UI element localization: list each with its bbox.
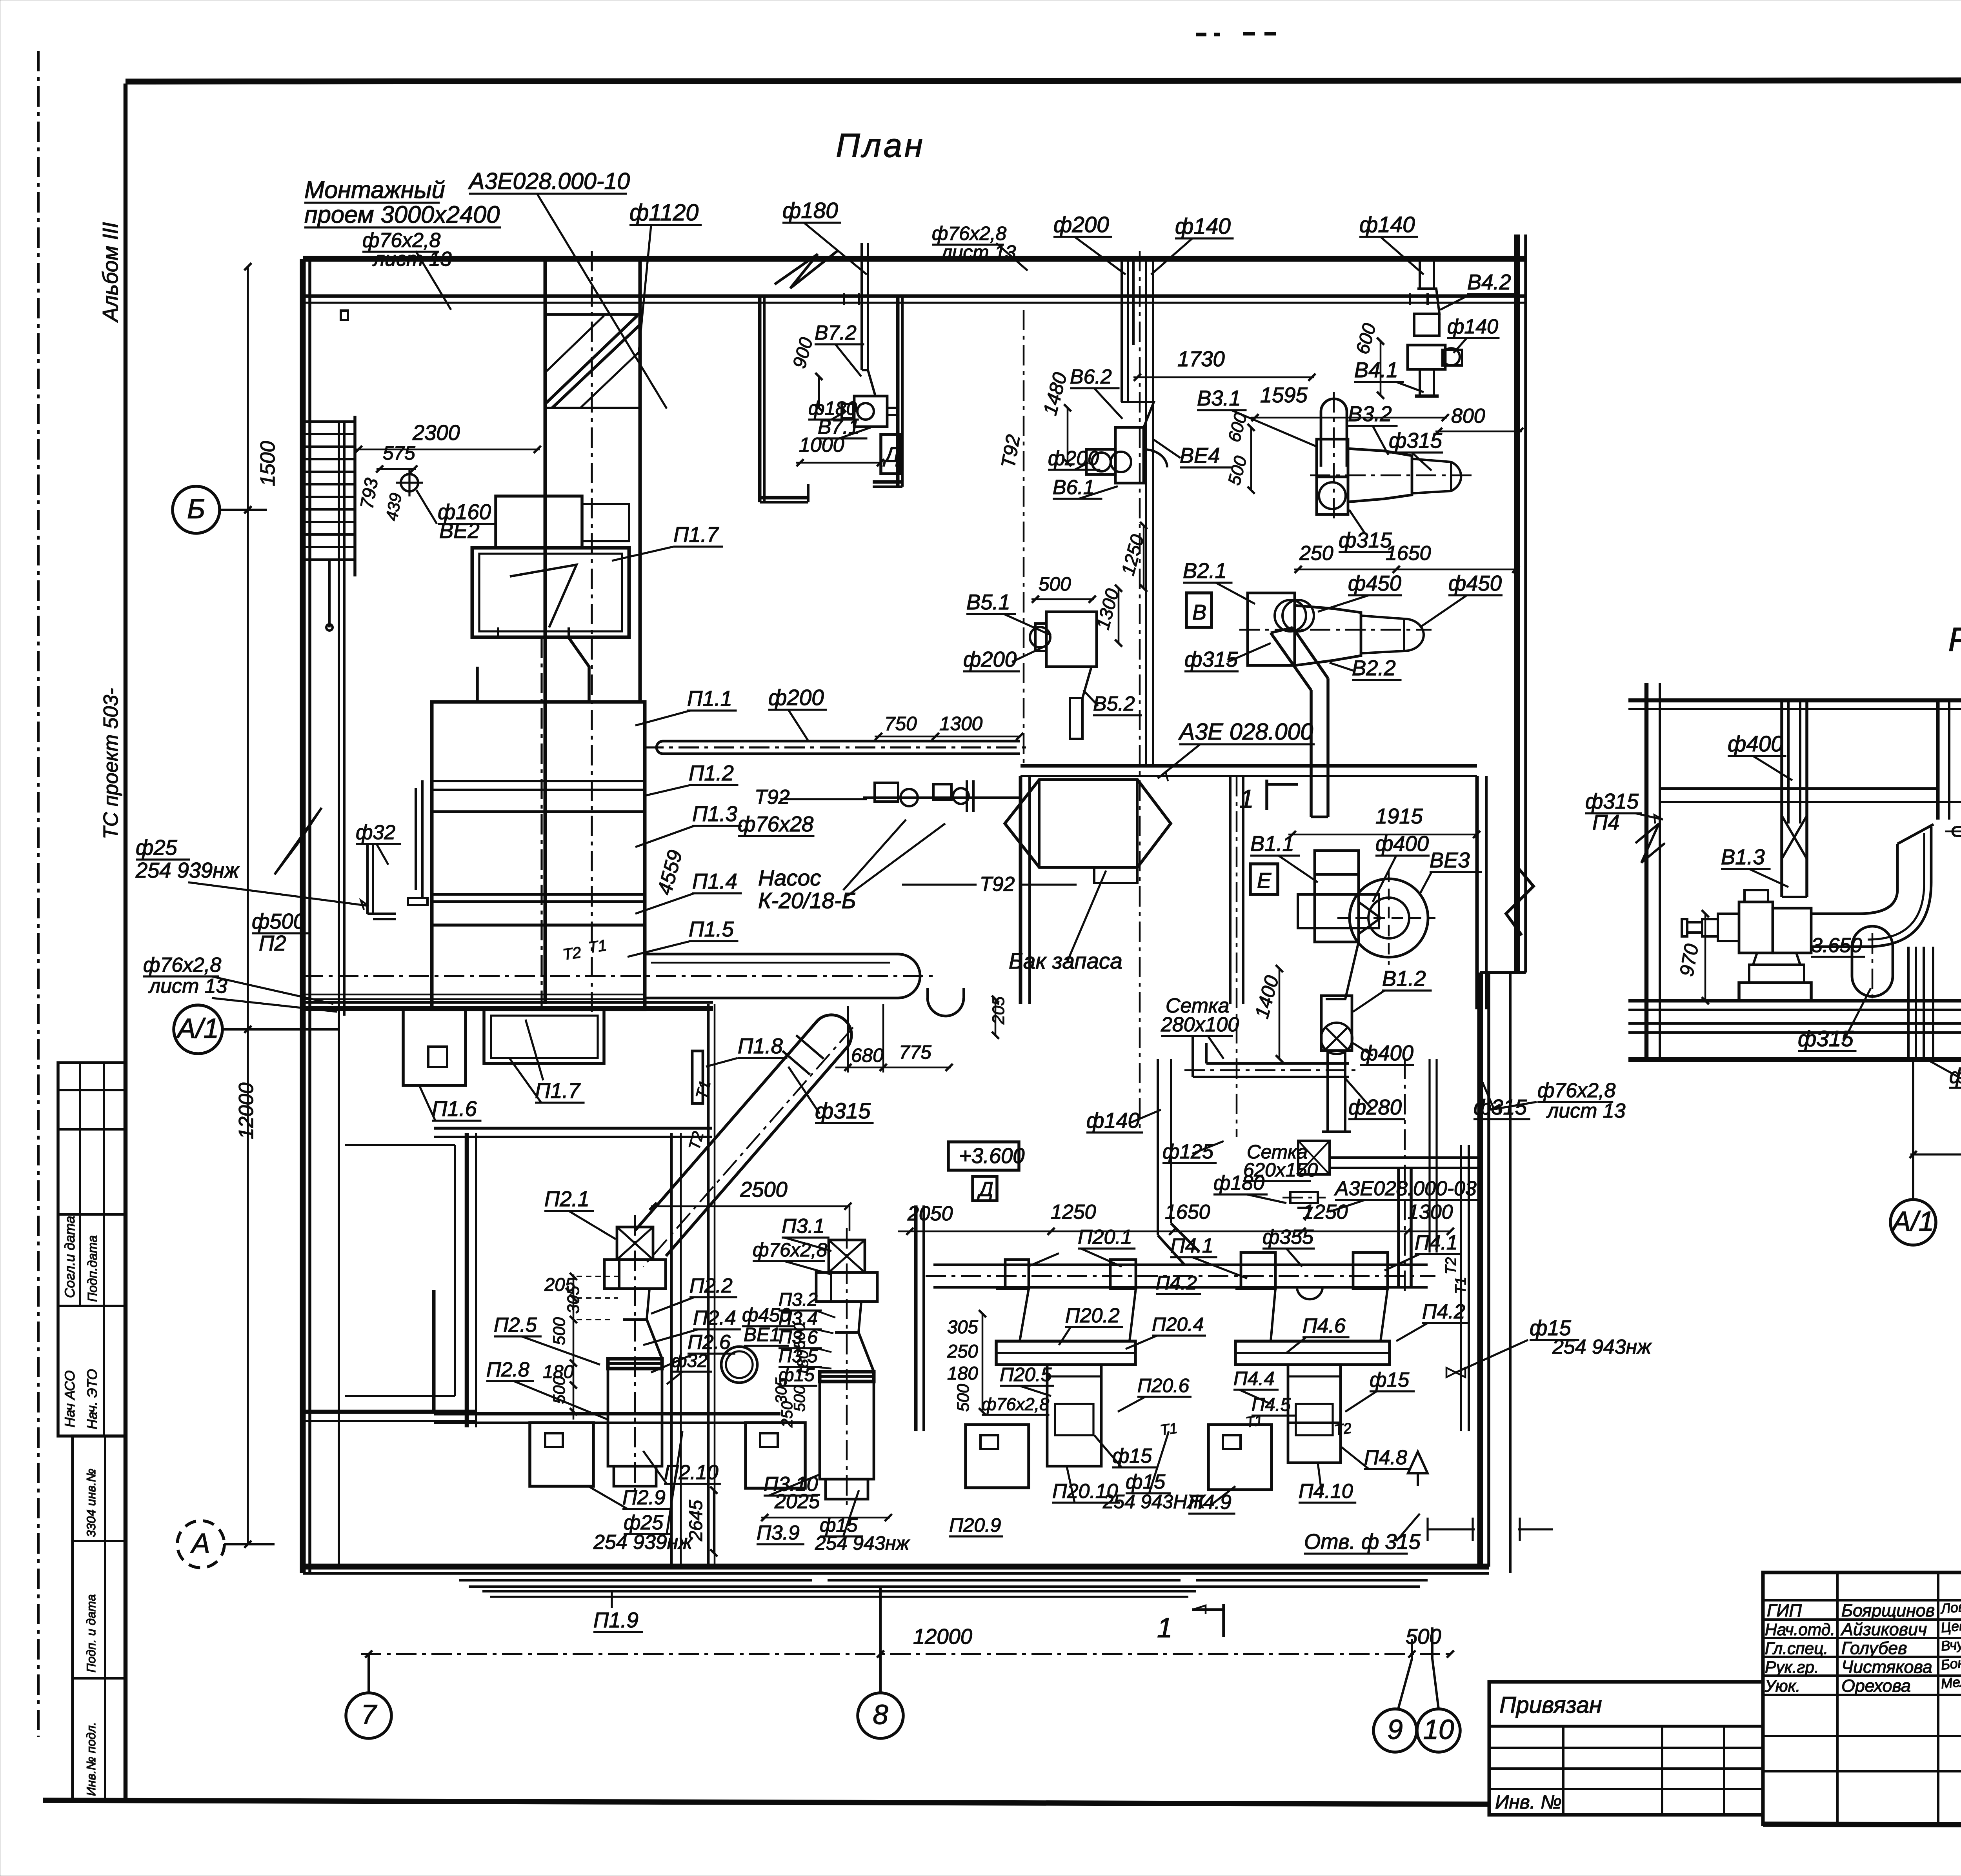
svg-text:П4.1: П4.1 bbox=[1415, 1231, 1458, 1254]
frame top border bbox=[126, 80, 1961, 82]
section title bbox=[1948, 621, 1961, 658]
svg-text:750: 750 bbox=[884, 713, 917, 734]
fan BE3 bbox=[1337, 871, 1435, 965]
pipe f32 riser bbox=[367, 844, 396, 919]
room E right wall bbox=[1477, 776, 1486, 1009]
svg-text:П2.2: П2.2 bbox=[689, 1274, 733, 1297]
svg-text:12000: 12000 bbox=[913, 1625, 972, 1649]
margin rotated text TS project bbox=[100, 688, 122, 839]
label f76x2.8 list13 mid bbox=[932, 222, 1028, 271]
svg-text:ф200: ф200 bbox=[768, 685, 824, 710]
svg-text:Нач. ЭТО: Нач. ЭТО bbox=[84, 1369, 100, 1429]
svg-text:К-20/18-Б: К-20/18-Б bbox=[758, 889, 856, 913]
corridor wall bbox=[303, 1002, 713, 1009]
axis A line bbox=[224, 1543, 275, 1545]
dim 800 bbox=[1435, 405, 1523, 435]
label P20.9 bbox=[949, 1514, 1003, 1536]
margin rotated text Album III bbox=[98, 222, 122, 323]
label P1.6 bbox=[420, 1086, 482, 1121]
svg-text:А/1: А/1 bbox=[176, 1013, 219, 1044]
dim 500 B5 bbox=[1031, 573, 1096, 603]
wall room horiz bbox=[434, 1290, 780, 1423]
label f500 P2 bbox=[252, 909, 311, 955]
svg-text:Т2: Т2 bbox=[562, 943, 582, 963]
label P2.5 bbox=[494, 1314, 600, 1365]
stamp rotated low 3 bbox=[84, 1722, 98, 1796]
section lower slab bbox=[1628, 1023, 1961, 1033]
label P20.4 bbox=[1126, 1313, 1206, 1349]
label B5.2 bbox=[1083, 690, 1142, 715]
risers T1 T2 right bbox=[1443, 1145, 1469, 1431]
svg-text:ф200: ф200 bbox=[1048, 447, 1099, 470]
dim 1300 rot bbox=[1092, 585, 1123, 647]
tank bak zapasa bbox=[1005, 780, 1171, 883]
svg-text:Боярщинов: Боярщинов bbox=[1841, 1600, 1935, 1620]
unit B7 bbox=[842, 370, 899, 427]
label f200 pump bbox=[768, 685, 827, 740]
label P3.9 bbox=[757, 1522, 804, 1544]
duct above B1.3 detail bbox=[1782, 896, 1807, 898]
axis circle A left bbox=[177, 1521, 224, 1568]
svg-text:ф400: ф400 bbox=[1375, 832, 1429, 856]
label P4.9 bbox=[1188, 1486, 1235, 1514]
plan top wall inner bbox=[303, 296, 1526, 303]
svg-text:7: 7 bbox=[361, 1700, 377, 1731]
svg-text:В3.2: В3.2 bbox=[1348, 402, 1392, 426]
svg-text:лист 13: лист 13 bbox=[1546, 1100, 1626, 1122]
svg-text:Подп.дата: Подп.дата bbox=[85, 1235, 100, 1302]
label A3E028.000 bbox=[1158, 719, 1315, 781]
svg-text:П1.1: П1.1 bbox=[687, 687, 732, 711]
label f32 bbox=[356, 821, 401, 865]
svg-text:439: 439 bbox=[383, 492, 406, 522]
svg-text:254 943нж: 254 943нж bbox=[815, 1532, 910, 1554]
svg-text:Боно: Боно bbox=[1940, 1654, 1961, 1673]
svg-text:9: 9 bbox=[1387, 1714, 1403, 1745]
sig row 1 bbox=[1767, 1596, 1961, 1620]
triangle mark bbox=[1408, 1452, 1428, 1486]
label f25 254939 low bbox=[593, 1431, 693, 1554]
svg-text:ф315: ф315 bbox=[1389, 429, 1443, 453]
label D box upper bbox=[881, 434, 900, 474]
corridor axis T1 bbox=[303, 975, 937, 977]
label E box bbox=[1250, 864, 1278, 894]
svg-text:П2.9: П2.9 bbox=[622, 1486, 666, 1509]
stamp rotated low 2 bbox=[84, 1594, 98, 1672]
signature table outline bbox=[1763, 1572, 1961, 1824]
sig row 4 bbox=[1765, 1654, 1961, 1677]
label B5.1 bbox=[966, 590, 1051, 635]
label P1.8 bbox=[706, 1034, 788, 1067]
svg-text:ф315: ф315 bbox=[1339, 528, 1392, 552]
label f140 top bbox=[1151, 214, 1234, 274]
dim 4559 rotated bbox=[653, 848, 687, 898]
label f32 P2 bbox=[667, 1351, 712, 1384]
svg-text:Б: Б bbox=[187, 494, 205, 525]
label P4.8 bbox=[1341, 1446, 1411, 1469]
labels T1 T2 bottom bbox=[685, 1078, 1353, 1438]
label f400 B1.2 bbox=[1353, 1041, 1414, 1065]
svg-text:В6.2: В6.2 bbox=[1070, 365, 1112, 388]
page left dash-dot margin line bbox=[37, 51, 40, 1737]
svg-text:В7.2: В7.2 bbox=[815, 322, 857, 344]
svg-text:1595: 1595 bbox=[1260, 383, 1308, 407]
svg-text:1915: 1915 bbox=[1375, 804, 1423, 828]
dims bottom row bbox=[898, 1201, 1454, 1235]
label f140 low bbox=[1086, 1109, 1161, 1133]
room D right C-wall bbox=[873, 296, 902, 487]
svg-text:Т1: Т1 bbox=[1452, 1277, 1469, 1294]
sig row 2 bbox=[1765, 1616, 1961, 1639]
unit B6 body bbox=[1086, 427, 1167, 483]
svg-text:8: 8 bbox=[873, 1700, 888, 1731]
dim 205 bbox=[544, 1273, 618, 1420]
label BE4 bbox=[1153, 439, 1232, 467]
small funnel f180 bbox=[1282, 1192, 1326, 1220]
thin duct f125 bbox=[1945, 827, 1961, 836]
svg-text:ф180: ф180 bbox=[1213, 1172, 1264, 1194]
label P20.5 bbox=[1000, 1363, 1054, 1396]
wall vertical mid2 bbox=[708, 1004, 715, 1567]
dim 1000 B7 bbox=[796, 434, 884, 466]
svg-text:575: 575 bbox=[383, 442, 415, 464]
stamp rotated low 1 bbox=[84, 1469, 98, 1537]
plan left wall bbox=[303, 259, 310, 1573]
pipes through floor bbox=[1908, 947, 1933, 1060]
unit P1 stack centerline bbox=[540, 638, 542, 1007]
svg-text:П2.10: П2.10 bbox=[664, 1461, 719, 1484]
label +3.600 box bbox=[948, 1142, 1025, 1170]
svg-text:П1.6: П1.6 bbox=[432, 1097, 477, 1121]
svg-text:ВЕ1: ВЕ1 bbox=[744, 1323, 780, 1345]
svg-text:Уюк.: Уюк. bbox=[1765, 1677, 1800, 1696]
svg-text:П4.6: П4.6 bbox=[1302, 1314, 1346, 1337]
svg-text:1650: 1650 bbox=[1165, 1201, 1210, 1223]
dim small right b bbox=[1518, 1518, 1553, 1541]
plan top wall outer bbox=[303, 256, 1526, 262]
label P1.2 bbox=[643, 761, 739, 796]
svg-text:205: 205 bbox=[990, 996, 1008, 1025]
label f25 254939 bbox=[135, 836, 369, 910]
stamp column lower box bbox=[73, 1436, 126, 1800]
svg-text:ф450: ф450 bbox=[1448, 571, 1502, 595]
dim 500 600 rot bbox=[1224, 411, 1255, 494]
dim line bottom bbox=[361, 1651, 1454, 1658]
label P1.7 upper bbox=[612, 523, 723, 561]
duct f280 bottom bbox=[1184, 1035, 1357, 1077]
dim 2645 rot bbox=[686, 1487, 717, 1556]
label f200 top bbox=[1053, 213, 1126, 274]
svg-text:П2.5: П2.5 bbox=[494, 1314, 537, 1336]
label f15 P4 bbox=[1345, 1369, 1415, 1412]
unit P4 body bbox=[1288, 1365, 1341, 1463]
duct B3 capsule bbox=[1321, 392, 1347, 522]
label B6.2 bbox=[1070, 365, 1122, 419]
svg-text:ф280: ф280 bbox=[1348, 1095, 1402, 1119]
svg-text:2050: 2050 bbox=[907, 1202, 953, 1225]
label T92 upper bbox=[755, 786, 867, 809]
svg-text:Т92: Т92 bbox=[980, 873, 1015, 896]
dim 1480 rot bbox=[1039, 370, 1071, 466]
svg-text:254 939нж: 254 939нж bbox=[135, 858, 240, 882]
label montazhny proem bbox=[304, 176, 501, 228]
label D box lower bbox=[973, 1176, 997, 1201]
stamp rotated sig 1 bbox=[62, 1216, 78, 1298]
wall between P3 P20 bbox=[916, 1205, 924, 1431]
duct to right wall bbox=[1330, 1158, 1479, 1168]
svg-text:ф1120: ф1120 bbox=[629, 200, 699, 225]
label A3E028.000-10 bbox=[468, 168, 667, 409]
svg-text:ф315: ф315 bbox=[1585, 789, 1639, 813]
plan title bbox=[836, 127, 925, 164]
label P2.4 bbox=[643, 1307, 741, 1345]
svg-text:ф400: ф400 bbox=[1728, 732, 1783, 756]
svg-text:Инв. №: Инв. № bbox=[1495, 1791, 1562, 1813]
pump symbols bbox=[863, 780, 1020, 812]
svg-text:ф76х2,8: ф76х2,8 bbox=[143, 954, 221, 976]
label f355 bbox=[1262, 1226, 1315, 1267]
fan B1.3 motor bbox=[1739, 890, 1811, 953]
label P4.1 b bbox=[1384, 1231, 1462, 1271]
label f180 top left bbox=[775, 198, 867, 288]
section ceiling bbox=[1628, 700, 1961, 709]
pipes T1 T2 corridor bbox=[303, 994, 643, 999]
unit P1 big box bbox=[472, 548, 629, 637]
section mid wall bbox=[1938, 700, 1949, 820]
label f1120 bbox=[629, 200, 702, 355]
signature table rows bbox=[1763, 1600, 1961, 1771]
label B4.1 bbox=[1354, 358, 1424, 392]
svg-text:ф76х2,8: ф76х2,8 bbox=[1537, 1079, 1615, 1102]
stamp rotated sig 2 bbox=[85, 1235, 100, 1302]
duct to B4 bbox=[1420, 259, 1434, 289]
label T92 lower bbox=[902, 873, 1077, 896]
dim 1915 bbox=[1288, 804, 1480, 838]
svg-text:Насос: Насос bbox=[758, 866, 821, 891]
label f400 sec bbox=[1728, 732, 1792, 780]
label f315 P4 left bbox=[1585, 789, 1663, 834]
svg-text:500: 500 bbox=[791, 1323, 808, 1349]
svg-text:лист 13: лист 13 bbox=[940, 241, 1016, 263]
label f315 diag bbox=[788, 1067, 874, 1123]
shaft hatch band bbox=[545, 314, 640, 408]
label P3.10 bbox=[764, 1473, 820, 1496]
svg-text:В5.2: В5.2 bbox=[1093, 693, 1135, 715]
svg-text:П4.8: П4.8 bbox=[1364, 1446, 1407, 1469]
svg-text:В4.1: В4.1 bbox=[1354, 358, 1398, 382]
plan top wall opening ticks bbox=[844, 293, 1428, 305]
svg-text:Мелютн: Мелютн bbox=[1940, 1670, 1961, 1692]
dim small right a bbox=[1428, 1518, 1475, 1541]
unit P2 funnel assembly bbox=[604, 1215, 666, 1498]
section floor bbox=[1628, 1001, 1961, 1010]
label P4.2 a bbox=[1156, 1272, 1201, 1294]
svg-text:250: 250 bbox=[947, 1341, 978, 1362]
svg-text:600: 600 bbox=[1352, 321, 1380, 356]
label BE3 bbox=[1420, 848, 1482, 894]
label f15 low bbox=[1094, 1435, 1157, 1467]
svg-text:ф140: ф140 bbox=[1175, 214, 1231, 239]
svg-text:П3.1: П3.1 bbox=[782, 1215, 825, 1238]
unit B6 funnel bbox=[1115, 402, 1154, 483]
pipes f200 f140 cluster bbox=[1122, 251, 1153, 1133]
stamp rotated sig 4 bbox=[84, 1369, 100, 1429]
unit P1 left attach bbox=[408, 780, 427, 905]
svg-text:В1.1: В1.1 bbox=[1250, 832, 1294, 856]
svg-text:305: 305 bbox=[772, 1377, 790, 1404]
svg-text:Т1: Т1 bbox=[1244, 1412, 1264, 1431]
frame top small dashes bbox=[1196, 34, 1279, 35]
label B1.2 bbox=[1353, 967, 1432, 1012]
unit P1.7 lower bbox=[484, 1009, 604, 1063]
svg-text:ф200: ф200 bbox=[963, 647, 1017, 671]
dim 205 rot bbox=[990, 996, 1008, 1039]
duct P1.5 outlet bbox=[643, 954, 920, 998]
svg-text:600: 600 bbox=[1224, 411, 1251, 444]
section beam left bbox=[1660, 789, 1938, 802]
left vertical dim line bbox=[244, 263, 251, 1548]
svg-text:В: В bbox=[1192, 600, 1206, 624]
room E left wall bbox=[1021, 776, 1030, 1004]
svg-text:ТС проект 503-: ТС проект 503- bbox=[100, 688, 122, 839]
unit B1.2 bbox=[1321, 996, 1352, 1132]
label f140 top right bbox=[1359, 213, 1424, 274]
label B1.1 bbox=[1250, 832, 1318, 882]
label B2.1 bbox=[1183, 559, 1255, 604]
svg-text:793: 793 bbox=[357, 476, 382, 511]
elbow duct f400 bbox=[1811, 824, 1934, 947]
svg-text:180: 180 bbox=[794, 1350, 811, 1376]
label f200 B6 bbox=[1048, 447, 1100, 470]
pedestal P4a bbox=[1208, 1425, 1272, 1490]
label P2.6 bbox=[651, 1331, 735, 1372]
label B6.1 bbox=[1053, 476, 1118, 499]
dims left col P20 bbox=[947, 1310, 986, 1415]
axis circle B bbox=[173, 486, 220, 533]
svg-text:ф140: ф140 bbox=[1086, 1109, 1140, 1133]
label B box bbox=[1186, 593, 1212, 627]
svg-text:1400: 1400 bbox=[1251, 973, 1283, 1020]
frame bottom border right bbox=[1763, 1824, 1961, 1826]
dim 680 775 bbox=[835, 1004, 953, 1073]
svg-text:П1.7: П1.7 bbox=[673, 523, 719, 547]
svg-text:970: 970 bbox=[1675, 942, 1703, 978]
wall vertical mid bbox=[671, 1133, 681, 1567]
label P20.1 bbox=[1028, 1226, 1135, 1267]
svg-text:лист 13: лист 13 bbox=[372, 248, 452, 271]
label 3.650 bbox=[1811, 934, 1865, 957]
plan right wall upper bbox=[1517, 234, 1526, 973]
wall left room right bbox=[467, 1133, 476, 1427]
svg-text:П4.1: П4.1 bbox=[1170, 1234, 1213, 1257]
unit B1 funnel bbox=[1315, 942, 1359, 999]
svg-text:280х100: 280х100 bbox=[1161, 1013, 1239, 1036]
svg-text:Инв.№ подл.: Инв.№ подл. bbox=[84, 1722, 98, 1796]
dim 1595 bbox=[1251, 383, 1449, 421]
section column left pair bbox=[1782, 700, 1807, 823]
svg-text:254 943нж: 254 943нж bbox=[1552, 1336, 1652, 1358]
label f180 B7 bbox=[808, 397, 859, 420]
svg-text:П3.9: П3.9 bbox=[757, 1522, 800, 1544]
dim 6000 line bbox=[1910, 1151, 1961, 1158]
svg-text:2300: 2300 bbox=[412, 421, 460, 445]
label f315 right low bbox=[1473, 1082, 1530, 1119]
svg-text:П4.2: П4.2 bbox=[1422, 1300, 1465, 1323]
svg-text:В5.1: В5.1 bbox=[966, 590, 1010, 614]
svg-text:180: 180 bbox=[947, 1363, 978, 1384]
label f76x28 bbox=[738, 812, 815, 836]
svg-text:500: 500 bbox=[954, 1384, 973, 1412]
svg-text:ф180: ф180 bbox=[782, 198, 838, 223]
label bak zapasa bbox=[1009, 871, 1122, 974]
label P20.6 bbox=[1118, 1374, 1192, 1412]
svg-text:Т92: Т92 bbox=[997, 433, 1024, 470]
axis leader A1 sec bbox=[1912, 1060, 1914, 1200]
dim 250 1650 bbox=[1294, 542, 1519, 573]
unit P1.8 bbox=[692, 1051, 703, 1103]
svg-text:П1.4: П1.4 bbox=[692, 869, 737, 893]
privyazan text bbox=[1499, 1692, 1602, 1718]
svg-text:ф140: ф140 bbox=[1447, 315, 1498, 338]
svg-text:254 939нж: 254 939нж bbox=[593, 1531, 693, 1554]
svg-text:Т92: Т92 bbox=[755, 786, 790, 809]
svg-text:2645: 2645 bbox=[686, 1500, 706, 1542]
section break left wall bbox=[1635, 823, 1665, 863]
label P1.9 bbox=[593, 1591, 643, 1632]
fan B1.3 inlet bbox=[1682, 914, 1739, 941]
room D left C-wall bbox=[760, 296, 808, 502]
plan top wall notch bbox=[341, 311, 348, 320]
duct to B7 bbox=[862, 243, 868, 370]
svg-text:А3Е028.000-10: А3Е028.000-10 bbox=[468, 168, 630, 194]
svg-text:П1.3: П1.3 bbox=[692, 802, 737, 826]
svg-text:Монтажный: Монтажный bbox=[304, 176, 445, 204]
axis A1 line bbox=[222, 1028, 338, 1031]
svg-text:ф32: ф32 bbox=[671, 1351, 708, 1371]
dim 575 bbox=[376, 442, 417, 473]
dim 439 rot bbox=[383, 492, 406, 522]
svg-text:500: 500 bbox=[791, 1385, 808, 1412]
svg-text:Вчу: Вчу bbox=[1940, 1636, 1961, 1654]
label T92 rot bbox=[997, 310, 1024, 765]
label P1.5 bbox=[628, 917, 739, 957]
svg-text:500: 500 bbox=[1224, 454, 1251, 487]
svg-text:1: 1 bbox=[1239, 785, 1254, 814]
unit P20 plate bbox=[996, 1341, 1135, 1365]
unit P1 stack bbox=[432, 702, 645, 1009]
svg-text:ф76х2,8: ф76х2,8 bbox=[753, 1239, 828, 1261]
unit P20 body bbox=[1047, 1365, 1101, 1466]
plan bottom wall bbox=[303, 1567, 1489, 1573]
svg-text:ф355: ф355 bbox=[1262, 1226, 1313, 1249]
svg-text:П20.2: П20.2 bbox=[1065, 1304, 1120, 1327]
svg-text:Т2: Т2 bbox=[1333, 1420, 1352, 1438]
svg-text:П1.8: П1.8 bbox=[738, 1034, 783, 1058]
svg-text:2500: 2500 bbox=[740, 1178, 788, 1202]
svg-text:Т2: Т2 bbox=[1443, 1257, 1459, 1274]
label setka 280x100 bbox=[1161, 994, 1239, 1059]
dim 1250 rot bbox=[1117, 522, 1148, 592]
svg-text:305: 305 bbox=[947, 1317, 978, 1338]
label P1.1 bbox=[635, 687, 737, 725]
svg-text:1300: 1300 bbox=[939, 713, 983, 734]
svg-text:1250: 1250 bbox=[1302, 1201, 1348, 1223]
svg-text:План: План bbox=[836, 127, 925, 164]
duct P1.9 band bbox=[482, 1591, 1196, 1597]
label B7.2 bbox=[815, 322, 864, 376]
section mark 1 upper bbox=[1239, 780, 1298, 814]
dim 2025 bbox=[761, 1490, 892, 1521]
